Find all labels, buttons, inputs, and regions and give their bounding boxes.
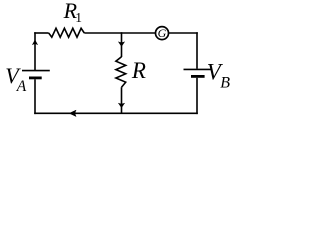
- svg-text:G: G: [158, 26, 167, 40]
- wire: top side, middle section: [84, 32, 155, 34]
- wire: bottom side: [34, 112, 198, 114]
- svg-text:A: A: [16, 78, 27, 95]
- current arrow (downward) on middle branch upper: [118, 42, 124, 47]
- battery VA: [22, 71, 50, 78]
- resistor R1: [49, 28, 85, 37]
- label VB: [207, 60, 231, 92]
- wire: top side, right section: [169, 32, 198, 34]
- current arrow (upward) on left wire: [32, 40, 38, 46]
- wire: right side, upper: [196, 32, 198, 68]
- svg-text:1: 1: [75, 10, 82, 25]
- resistor R: [116, 57, 126, 88]
- wire: right side, lower: [196, 78, 198, 114]
- label VA: [5, 63, 27, 95]
- wire: top side, left section: [34, 32, 49, 34]
- current arrow (downward) on middle branch lower: [118, 103, 124, 108]
- battery VB: [184, 69, 213, 76]
- wire: middle branch, lower: [121, 87, 123, 113]
- label R1: [63, 0, 82, 25]
- svg-text:B: B: [220, 75, 230, 92]
- current arrow (leftward) on bottom wire: [69, 110, 76, 116]
- wire: left side, lower: [34, 79, 36, 114]
- galvanometer G: [156, 26, 169, 40]
- svg-text:R: R: [131, 58, 146, 83]
- wire: middle branch, upper: [121, 32, 123, 57]
- wire: left side, upper: [34, 32, 36, 70]
